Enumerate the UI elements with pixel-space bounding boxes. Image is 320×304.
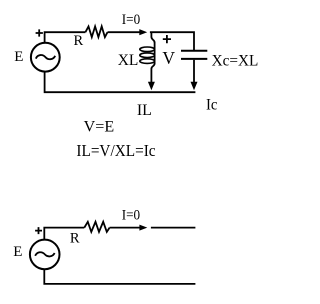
svg-text:V=E: V=E [84,119,115,136]
svg-text:E: E [14,49,23,65]
svg-text:R: R [74,33,84,49]
svg-text:I=0: I=0 [122,12,140,28]
svg-text:IL: IL [137,102,152,119]
svg-text:IL=V/XL=Ic: IL=V/XL=Ic [76,141,156,160]
svg-text:Ic: Ic [206,96,218,113]
svg-text:I=0: I=0 [122,208,140,224]
svg-text:XL: XL [118,52,139,69]
svg-text:E: E [13,244,22,260]
svg-text:V: V [162,48,175,68]
svg-text:Xc=XL: Xc=XL [212,52,259,69]
svg-text:R: R [70,230,80,246]
